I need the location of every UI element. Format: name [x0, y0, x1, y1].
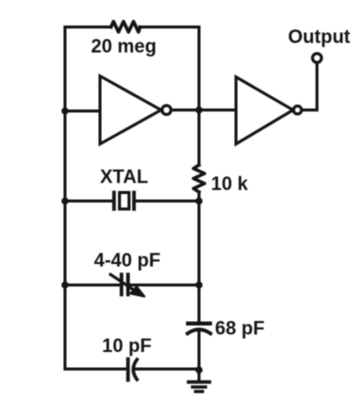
node B junction dot	[195, 106, 202, 113]
crystal Y1 body box	[120, 193, 130, 210]
capacitor C3 10 pF left plate	[126, 359, 130, 380]
svg-text:20 meg: 20 meg	[91, 37, 156, 58]
node A junction dot	[61, 107, 68, 114]
ground	[189, 380, 210, 383]
svg-text:10 k: 10 k	[211, 174, 248, 195]
op-amp U1 output bubble	[162, 106, 171, 115]
wire: U2 output to output stub	[302, 109, 318, 112]
wire: right rail node C to node D	[198, 201, 201, 285]
capacitor C3 10 pF curved plate	[133, 360, 137, 380]
capacitor C2 68 pF curved plate	[188, 330, 211, 334]
crystal Y1 right plate	[132, 193, 136, 210]
capacitor C2 68 pF top plate	[188, 322, 210, 326]
wire: output stub vertical	[316, 63, 319, 110]
svg-text:10 pF: 10 pF	[102, 336, 152, 357]
capacitor C1 trimmer arrow	[111, 275, 135, 291]
wire: R2 to node C	[198, 192, 201, 201]
resistor R2 10 k	[194, 165, 205, 192]
crystal Y1 left plate	[112, 193, 116, 210]
op-amp U1 inverter triangle	[100, 76, 161, 144]
op-amp U2 inverter triangle	[236, 77, 293, 144]
svg-text:Output: Output	[288, 27, 351, 48]
wire: inverter U1 input from node A	[65, 110, 100, 113]
wire: ground stub	[198, 369, 201, 381]
wire: right rail node D to capacitor C2	[198, 285, 201, 322]
node junction dot trimmer left	[61, 281, 68, 288]
wire: node B to inverter U2 input	[199, 109, 236, 112]
node E junction dot	[195, 366, 202, 373]
wire: top feedback, right half	[140, 26, 199, 29]
wire: C2 to node E	[198, 332, 201, 370]
wire: trimmer row	[65, 284, 199, 287]
wire: left rail	[64, 27, 67, 369]
wire: U1 output to node B	[171, 109, 199, 112]
wire: right rail upper (top corner to node B)	[198, 27, 201, 110]
wire: XTAL row	[65, 200, 199, 203]
capacitor C1 4-40 pF right plate	[126, 275, 130, 295]
node C junction dot	[195, 197, 202, 204]
wire: bottom row	[65, 368, 199, 371]
svg-text:XTAL: XTAL	[100, 167, 149, 188]
svg-text:68 pF: 68 pF	[215, 319, 265, 340]
node junction dot XTAL left	[61, 197, 68, 204]
svg-text:4-40 pF: 4-40 pF	[94, 251, 161, 272]
node Output terminal circle	[313, 54, 322, 63]
capacitor C1 4-40 pF left plate	[120, 275, 124, 295]
wire: top feedback, left half	[65, 26, 111, 29]
resistor R1 20 meg	[111, 22, 140, 33]
wire: right rail node B to resistor R2	[198, 110, 201, 165]
node D junction dot	[195, 281, 202, 288]
op-amp U2 output bubble	[294, 106, 302, 114]
